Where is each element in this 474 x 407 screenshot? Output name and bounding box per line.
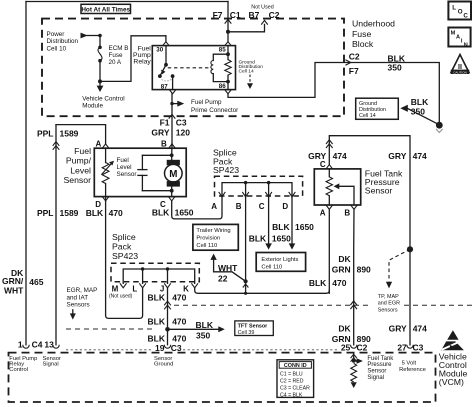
wire ground bus horizontal	[195, 288, 330, 294]
svg-text:PPL: PPL	[37, 128, 54, 138]
svg-text:Fuel Tank: Fuel Tank	[367, 356, 394, 362]
node motor bottom	[170, 189, 174, 193]
svg-text:C2: C2	[269, 10, 280, 20]
arrow to ground distribution	[400, 105, 408, 112]
terminal A tank sensor	[326, 205, 333, 209]
svg-text:ECM B: ECM B	[109, 45, 129, 52]
svg-text:Relay: Relay	[133, 59, 151, 66]
pin 25 C2 hook DK GRN	[351, 345, 357, 348]
svg-text:Exterior Lights: Exterior Lights	[261, 257, 298, 263]
underhood fuse block dashed box	[42, 19, 344, 117]
svg-text:Cell 110: Cell 110	[261, 265, 282, 271]
svg-text:Fuse: Fuse	[109, 52, 123, 59]
wire 87 through F1/C3 to pump B	[171, 104, 173, 144]
level sensor wiper arrow	[102, 164, 112, 175]
svg-text:BLK: BLK	[309, 278, 327, 288]
fuel tank pressure sensor box	[314, 169, 360, 205]
svg-text:M: M	[451, 31, 456, 37]
svg-text:Ground: Ground	[154, 361, 173, 367]
svg-text:Vehicle Control: Vehicle Control	[82, 96, 124, 103]
svg-text:and EGR: and EGR	[378, 301, 400, 307]
svg-text:B7: B7	[249, 10, 260, 20]
svg-text:C4: C4	[32, 339, 43, 349]
icon LOC box	[448, 2, 471, 20]
pin 1 C4 hook DK GRN/WHT	[23, 345, 29, 348]
svg-text:Pump/: Pump/	[66, 156, 92, 166]
svg-text:DK: DK	[338, 254, 351, 264]
ground distribution cell 14 box	[356, 98, 399, 119]
svg-text:470: 470	[172, 333, 186, 343]
svg-text:N: N	[464, 42, 468, 48]
svg-text:350: 350	[196, 330, 210, 340]
svg-text:86: 86	[219, 83, 226, 90]
wire BLK 350 to TFT sensor	[168, 328, 219, 330]
svg-text:C3: C3	[176, 118, 187, 128]
terminal arrow relay 30	[163, 42, 170, 46]
svg-text:and IAT: and IAT	[67, 294, 89, 301]
svg-text:L: L	[452, 4, 456, 11]
svg-text:Prime Connector: Prime Connector	[191, 107, 238, 114]
divider dashed right	[174, 304, 372, 306]
svg-text:Sensors: Sensors	[378, 308, 398, 314]
svg-text:Pressure: Pressure	[367, 362, 392, 368]
connector chevron C2/F7	[345, 60, 350, 65]
svg-text:C1 = BLU: C1 = BLU	[280, 371, 303, 377]
svg-text:350: 350	[388, 63, 402, 73]
svg-text:GRY: GRY	[388, 151, 406, 161]
svg-text:BLK: BLK	[148, 333, 166, 343]
svg-text:470: 470	[172, 317, 186, 327]
terminal L left pack	[139, 283, 146, 288]
svg-text:A: A	[211, 202, 217, 211]
svg-text:Fuel: Fuel	[117, 157, 129, 164]
splice pack SP423 left dashed box	[111, 263, 199, 282]
fuel pump level sensor box	[94, 148, 186, 196]
trailer wiring provision box	[193, 224, 238, 250]
svg-text:Provision: Provision	[196, 236, 220, 242]
svg-text:BLK: BLK	[148, 317, 166, 327]
svg-text:WHT: WHT	[4, 285, 24, 295]
svg-text:Fuel: Fuel	[74, 146, 91, 156]
svg-text:C3: C3	[413, 342, 424, 352]
wire fuse junction to relay terminal 30	[100, 36, 166, 82]
svg-text:EGR, MAP: EGR, MAP	[67, 287, 98, 294]
terminal C right pack	[265, 192, 272, 197]
svg-text:F7: F7	[349, 66, 359, 76]
wire D right pack to exterior lights	[291, 197, 293, 244]
svg-text:Sensor: Sensor	[365, 186, 393, 196]
terminal D right pack	[289, 192, 296, 197]
svg-text:TFT Sensor: TFT Sensor	[238, 323, 269, 329]
svg-text:GRN: GRN	[332, 264, 351, 274]
fuse ECM B 20A	[98, 46, 102, 50]
svg-text:F1: F1	[160, 118, 170, 128]
icon MAIN box	[448, 28, 470, 47]
svg-text:474: 474	[333, 151, 347, 161]
svg-text:C3 = CLEAR: C3 = CLEAR	[280, 385, 310, 391]
svg-text:L: L	[132, 285, 137, 294]
svg-text:5 Volt: 5 Volt	[402, 361, 417, 367]
svg-text:Trailer Wiring: Trailer Wiring	[196, 228, 230, 234]
wire PPL sensor signal U-route	[56, 125, 106, 144]
dashed ref to TP MAP EGR sensors	[389, 249, 410, 281]
connector chevrons wire B	[243, 284, 249, 288]
relay switch blade	[160, 65, 166, 76]
svg-text:SP423: SP423	[213, 165, 239, 175]
svg-text:1650: 1650	[272, 234, 291, 244]
svg-text:BLK: BLK	[152, 207, 170, 217]
svg-text:Cell 14: Cell 14	[239, 69, 255, 75]
svg-text:A: A	[456, 35, 460, 41]
pin 27 C3 hook GRY	[407, 345, 413, 348]
wire F7/C1 drop from top line	[227, 2, 229, 32]
node WHT tap	[244, 279, 248, 283]
svg-text:Sensor: Sensor	[63, 175, 91, 185]
splice bus right	[222, 183, 292, 197]
svg-text:BLK: BLK	[249, 234, 267, 244]
svg-text:Block: Block	[352, 39, 374, 49]
svg-text:Reference: Reference	[399, 367, 426, 373]
svg-text:SP423: SP423	[112, 251, 138, 261]
svg-text:87: 87	[161, 84, 168, 91]
connector chevrons PPL	[53, 142, 60, 146]
arrow fuel pump prime connector	[172, 103, 177, 105]
icon caution triangle	[451, 55, 469, 73]
svg-text:Signal: Signal	[367, 375, 384, 381]
svg-text:Sensor: Sensor	[367, 369, 386, 375]
terminal B right pack	[242, 192, 249, 197]
terminal D fuel pump	[105, 197, 107, 201]
svg-text:CONN ID: CONN ID	[284, 363, 307, 369]
svg-text:C: C	[259, 202, 265, 211]
level sensor resistor	[105, 148, 107, 162]
svg-text:Sensor: Sensor	[117, 171, 137, 178]
svg-text:474: 474	[413, 151, 427, 161]
wire WHT 22 to trailer provision	[214, 260, 246, 281]
svg-text:470: 470	[332, 278, 346, 288]
svg-text:B: B	[344, 209, 350, 218]
svg-text:350: 350	[411, 107, 425, 117]
svg-text:B: B	[161, 139, 167, 148]
svg-text:PPL: PPL	[37, 208, 54, 218]
svg-text:1650: 1650	[175, 207, 194, 217]
wire relay 87 down	[171, 94, 173, 104]
node fuel pump prime tap	[170, 102, 173, 105]
svg-text:Control: Control	[9, 367, 28, 373]
svg-text:Level: Level	[117, 164, 132, 171]
svg-text:Module: Module	[82, 103, 103, 110]
svg-text:25: 25	[341, 342, 351, 352]
svg-text:F7: F7	[213, 10, 223, 20]
node GRY tap TP MAP EGR	[407, 246, 413, 252]
node fuse top feed	[98, 34, 102, 38]
wire B right pack down	[245, 197, 247, 281]
svg-text:Hot At All Times: Hot At All Times	[81, 6, 130, 13]
node ground G point	[436, 122, 443, 129]
motor M fuel pump	[171, 155, 173, 160]
svg-text:M: M	[112, 285, 119, 294]
svg-text:D: D	[282, 202, 288, 211]
pin hook J	[164, 345, 170, 348]
svg-text:1589: 1589	[60, 128, 79, 138]
svg-text:465: 465	[29, 277, 43, 287]
svg-text:85: 85	[219, 47, 226, 54]
relay pin 86	[226, 80, 230, 84]
svg-text:20 A: 20 A	[109, 59, 122, 66]
svg-text:19: 19	[155, 343, 165, 353]
svg-text:B: B	[236, 202, 242, 211]
svg-text:DK: DK	[338, 323, 351, 333]
wire pump D U-route to L	[106, 201, 143, 319]
splice pack SP423 right dashed box	[215, 176, 303, 196]
svg-text:WHT: WHT	[218, 263, 238, 273]
wire C right pack to exterior lights	[268, 197, 270, 244]
svg-text:C2: C2	[349, 52, 360, 62]
svg-text:120: 120	[176, 128, 190, 138]
relay resistor (parallel with coil)	[227, 54, 229, 59]
connector chevrons GRY	[326, 140, 333, 144]
svg-text:1: 1	[18, 339, 23, 349]
node motor top	[170, 153, 174, 157]
relay armature dashed link	[168, 67, 210, 69]
svg-text:(VCM): (VCM)	[439, 377, 464, 387]
wire GRY 474 feed to sensor C	[329, 136, 410, 345]
svg-text:27: 27	[397, 342, 407, 352]
node sensor ground junction	[165, 327, 170, 332]
svg-text:C: C	[463, 13, 468, 20]
relay pin 87	[171, 74, 175, 78]
svg-text:1650: 1650	[295, 222, 314, 232]
node fuse output junction	[98, 79, 102, 83]
terminal K left pack	[191, 283, 198, 288]
svg-text:470: 470	[172, 292, 186, 302]
svg-text:BLK: BLK	[272, 222, 290, 232]
svg-text:TP, MAP: TP, MAP	[378, 294, 399, 300]
terminal A right pack	[219, 192, 226, 197]
node coil feed junction	[226, 30, 230, 34]
wire B into pump	[171, 144, 173, 155]
tank sensor wiper	[334, 183, 340, 189]
terminal C fuel pump	[171, 191, 173, 197]
svg-text:Fuel Pump: Fuel Pump	[191, 99, 222, 106]
wire tank sensor B DK GRN 890	[353, 209, 355, 344]
svg-text:13: 13	[44, 339, 54, 349]
svg-text:GRY: GRY	[151, 128, 169, 138]
svg-text:O: O	[458, 9, 463, 16]
svg-text:890: 890	[357, 264, 371, 274]
connector chevrons DK GRN	[350, 301, 357, 305]
wire to fuse	[99, 36, 101, 48]
wire top feed line	[26, 1, 228, 3]
svg-text:Level: Level	[70, 165, 91, 175]
tank sensor resistor	[328, 169, 330, 177]
svg-text:C4 = BLK: C4 = BLK	[280, 392, 303, 398]
svg-text:A: A	[96, 139, 102, 148]
VCM dashed box	[9, 353, 436, 402]
svg-text:BLK: BLK	[196, 320, 214, 330]
svg-text:CAUTION: CAUTION	[453, 70, 467, 74]
svg-text:Underhood: Underhood	[352, 19, 395, 29]
terminal J left pack	[164, 283, 171, 288]
relay coil	[213, 54, 228, 60]
icon ESD sensitive	[447, 330, 458, 340]
arrow to vehicle control module	[99, 81, 101, 85]
wire tank sensor A to ground bus	[328, 209, 330, 293]
CONN ID box	[277, 360, 314, 398]
svg-text:Fuse: Fuse	[352, 29, 371, 39]
svg-text:C3: C3	[171, 343, 182, 353]
pin 13 hook PPL	[53, 345, 59, 348]
svg-text:Power: Power	[47, 31, 65, 38]
wire B joins ground bus	[245, 284, 247, 293]
terminal B tank sensor	[351, 205, 358, 209]
relay contact travel arc	[162, 79, 172, 81]
arrow power distribution feed	[81, 33, 88, 39]
relay K1 box	[152, 46, 235, 90]
svg-text:C: C	[320, 160, 326, 169]
splice bus left	[123, 269, 195, 283]
exterior lights box	[256, 253, 305, 272]
arrow EGR MAP IAT ref	[72, 310, 74, 314]
svg-text:474: 474	[413, 323, 427, 333]
TFT sensor cell 39 box	[235, 321, 273, 336]
svg-text:470: 470	[109, 208, 123, 218]
VCM internal fuel tank pressure signal	[353, 353, 355, 361]
VCM internal pull resistor	[351, 363, 357, 382]
svg-text:Cell 110: Cell 110	[196, 243, 217, 249]
divider dotted above VCM left	[66, 349, 151, 351]
svg-text:C1: C1	[230, 10, 241, 20]
svg-text:Sensors: Sensors	[67, 302, 90, 309]
svg-text:A: A	[320, 209, 326, 218]
connector chevrons J	[164, 301, 171, 305]
wire fuse to junction	[99, 61, 101, 82]
svg-text:22: 22	[218, 274, 228, 284]
svg-text:(Not used): (Not used)	[109, 294, 133, 300]
svg-text:Splice: Splice	[112, 232, 136, 242]
svg-text:Cell 10: Cell 10	[47, 45, 67, 52]
svg-text:M: M	[169, 169, 177, 180]
svg-text:C2 = RED: C2 = RED	[280, 378, 304, 384]
svg-text:Pack: Pack	[112, 242, 132, 252]
wire relay 86 to ground C2/F7	[228, 63, 439, 122]
terminal M left pack (not used)	[120, 283, 127, 288]
wire DK GRN/WHT 465 vertical (VCM fuel pump relay control)	[25, 2, 27, 345]
divider dashed left	[66, 328, 152, 330]
wire pump C to splice pack A	[172, 197, 222, 219]
svg-text:Distribution: Distribution	[47, 38, 79, 45]
svg-text:BLK: BLK	[148, 292, 166, 302]
capacitor fuel pump	[141, 155, 143, 169]
wire J BLK 470 to VCM	[167, 288, 169, 345]
svg-text:Cell 39: Cell 39	[238, 330, 255, 336]
svg-text:Signal: Signal	[43, 361, 59, 367]
wire stub to B7 C2 not used	[228, 24, 265, 31]
svg-text:1589: 1589	[60, 208, 79, 218]
svg-text:30: 30	[156, 47, 163, 54]
hot at all times box	[81, 4, 131, 13]
svg-text:GRY: GRY	[389, 323, 407, 333]
svg-text:Cell 14: Cell 14	[359, 113, 376, 119]
svg-text:C2: C2	[357, 342, 368, 352]
svg-text:BLK: BLK	[86, 208, 104, 218]
